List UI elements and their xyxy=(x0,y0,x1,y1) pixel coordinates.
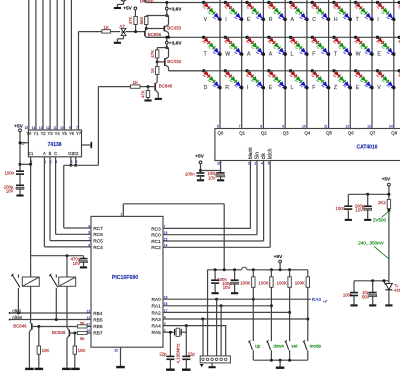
svg-text:1K: 1K xyxy=(133,80,138,85)
svg-text:2K2: 2K2 xyxy=(378,200,386,205)
svg-text:BC846: BC846 xyxy=(13,323,27,328)
+3,6V supply driver group 1 xyxy=(166,3,168,16)
switch contact 2 xyxy=(55,275,57,278)
svg-text:10V: 10V xyxy=(208,175,216,180)
svg-text:Q2: Q2 xyxy=(261,131,267,136)
svg-text:4: 4 xyxy=(261,162,263,166)
wire +5V cap rail right xyxy=(348,193,389,195)
svg-text:5: 5 xyxy=(268,162,270,166)
svg-text:clk: clk xyxy=(261,153,267,160)
capacitor 100u 10V buttons xyxy=(234,270,236,280)
svg-text:100K: 100K xyxy=(258,280,268,285)
IC U3 CAT4016 LED driver xyxy=(215,129,400,161)
wire: column Q8 xyxy=(393,0,395,129)
transistor BC856 group1 xyxy=(144,31,146,36)
ground 10K relay2 xyxy=(71,368,80,370)
svg-text:20: 20 xyxy=(114,349,118,353)
capacitor 100n right top xyxy=(347,194,349,206)
svg-text:latch: latch xyxy=(268,148,274,159)
svg-text:100K: 100K xyxy=(240,280,250,285)
svg-text:6: 6 xyxy=(217,125,219,129)
capacitor 100u 10V right top xyxy=(367,194,369,206)
RGB LED cell row1 col8 letter I xyxy=(376,1,379,4)
RGB LED cell row1 col5 letter C xyxy=(311,1,314,4)
ground 10K relay1 xyxy=(35,368,44,370)
wire relay +5V rail xyxy=(31,255,84,257)
switch down xyxy=(268,342,271,350)
crystal 4,192MHz xyxy=(170,331,174,333)
svg-text:D: D xyxy=(204,85,208,91)
svg-text:10V: 10V xyxy=(6,189,14,194)
svg-text:F: F xyxy=(312,85,315,91)
net label clkM xyxy=(9,319,11,321)
resistor 1K horizontal group2 xyxy=(131,85,141,88)
wire switch2 to clkM xyxy=(55,291,57,320)
ground BC846-1 emitter xyxy=(25,368,34,370)
svg-text:I: I xyxy=(247,85,248,91)
shunt regulator TL431 xyxy=(388,281,390,284)
svg-text:12: 12 xyxy=(46,126,50,130)
svg-text:8: 8 xyxy=(260,125,262,129)
wire RA0 xyxy=(163,298,311,300)
svg-text:BC856: BC856 xyxy=(140,0,154,4)
wire: column Q7 xyxy=(371,0,373,129)
svg-text:E: E xyxy=(269,85,273,91)
svg-text:6: 6 xyxy=(88,243,90,247)
svg-text:56K: 56K xyxy=(139,17,144,25)
RGB LED cell row1 col2 letter E xyxy=(245,1,248,4)
svg-text:Y0: Y0 xyxy=(26,131,32,136)
svg-text:2V500: 2V500 xyxy=(373,218,387,223)
svg-text:Sin: Sin xyxy=(255,152,261,159)
ground 22p left xyxy=(166,369,175,371)
svg-text:13: 13 xyxy=(39,126,43,130)
svg-text:Y2: Y2 xyxy=(40,131,46,136)
wire +5V jog to G1 xyxy=(20,163,31,165)
RGB LED cell row3 col6 letter Z xyxy=(332,69,335,72)
resistor 10K relay2 xyxy=(74,333,76,346)
RGB LED cell row3 col1 letter R xyxy=(224,69,227,72)
svg-text:V: V xyxy=(204,17,208,23)
wire RA4 to crystal/C xyxy=(185,326,187,357)
svg-text:Q1: Q1 xyxy=(239,131,245,136)
wire row3 feed xyxy=(169,70,204,72)
svg-text:RC0: RC0 xyxy=(151,233,161,239)
ground 22p right xyxy=(182,369,191,371)
svg-text:50V: 50V xyxy=(362,294,370,299)
wire ICSP pin5 to RA1 xyxy=(220,306,222,356)
svg-text:Y4: Y4 xyxy=(55,131,61,136)
wire ICSP pin6 to RA4 xyxy=(225,326,227,356)
svg-text:RA5: RA5 xyxy=(151,330,161,336)
svg-text:2: 2 xyxy=(254,162,256,166)
svg-text:CAT4016: CAT4016 xyxy=(356,144,377,150)
svg-text:15: 15 xyxy=(25,126,29,130)
svg-text:RC4: RC4 xyxy=(93,245,103,251)
diode pair A7 group0 (clipped) xyxy=(121,0,126,2)
svg-text:G1: G1 xyxy=(28,151,34,156)
RGB LED cell row1 col7 letter T xyxy=(354,1,357,4)
wires A,B,C,G2-net down to PIC RC pins xyxy=(43,160,45,247)
svg-text:Z: Z xyxy=(334,85,337,91)
svg-text:1K: 1K xyxy=(150,68,155,73)
svg-text:RC1: RC1 xyxy=(151,239,161,245)
svg-text:up: up xyxy=(255,343,261,348)
wire ICSP pin2 to +5V xyxy=(207,270,209,356)
svg-text:R: R xyxy=(225,85,229,91)
svg-text:mode: mode xyxy=(310,343,322,348)
RGB LED cell row2 col5 letter F xyxy=(311,36,314,39)
svg-text:100n: 100n xyxy=(335,206,345,211)
svg-text:A: A xyxy=(43,151,46,156)
svg-text:1K: 1K xyxy=(103,25,108,30)
ground below caps xyxy=(16,194,23,196)
wire: LED row 3 anode bus xyxy=(169,70,400,72)
svg-text:Y1: Y1 xyxy=(33,131,39,136)
wire +5V to CAT4016 VDD xyxy=(200,164,202,173)
wire RA1 xyxy=(163,305,271,307)
svg-text:BCX53: BCX53 xyxy=(167,59,181,64)
svg-text:14: 14 xyxy=(32,126,36,130)
ground 470u xyxy=(80,266,87,268)
transistor BC856 group0 (clipped) xyxy=(144,0,146,2)
switch contact 1 xyxy=(17,275,19,278)
RGB LED cell row1 col6 letter H xyxy=(332,1,335,4)
svg-text:RB6: RB6 xyxy=(93,324,103,330)
svg-text:I: I xyxy=(377,17,378,23)
transistor Q BCX53 group2 xyxy=(164,58,166,66)
RGB LED cell row3 col0 letter D xyxy=(202,69,205,72)
wire RC2 to latch xyxy=(163,246,270,248)
svg-text:1: 1 xyxy=(121,212,123,216)
resistor 47K pulldown group2 xyxy=(147,87,149,91)
svg-text:E: E xyxy=(356,85,360,91)
ground 100n buttons xyxy=(212,292,219,294)
transistor Q BCX53 group1 xyxy=(163,26,165,32)
svg-text:RA0: RA0 xyxy=(312,297,322,303)
svg-text:Q3: Q3 xyxy=(283,131,289,136)
svg-text:Q7: Q7 xyxy=(370,131,376,136)
wire +5V rail down xyxy=(19,132,21,172)
no-connect stub right of 74138 xyxy=(82,144,92,146)
wire base node 1 xyxy=(32,326,78,328)
svg-text:BCX53: BCX53 xyxy=(167,25,181,30)
ground 10u bottom right xyxy=(369,304,376,306)
ground of A7 group0 xyxy=(114,7,121,9)
RGB LED cell row2 col0 letter T xyxy=(202,36,205,39)
connector SV1 ICSP xyxy=(200,356,230,363)
resistor 100K pullup 3 xyxy=(289,270,291,277)
svg-text:RB7: RB7 xyxy=(93,330,103,336)
ground 100n bottom right xyxy=(350,304,357,306)
svg-text:V: V xyxy=(377,85,381,91)
svg-text:9: 9 xyxy=(69,126,71,130)
wire Y7 to 1K resistor xyxy=(78,32,80,130)
resistor 100K pullup 2 xyxy=(270,270,272,277)
svg-text:13: 13 xyxy=(367,125,371,129)
svg-text:set: set xyxy=(291,343,298,348)
RGB LED cell row2 col3 letter A xyxy=(267,36,270,39)
RGB LED cell row2 col6 letter T xyxy=(332,36,335,39)
wire: column Q5 xyxy=(328,0,330,129)
wire ICSP pin1 to RA3 xyxy=(202,319,204,356)
RGB LED cell row3 col8 letter V xyxy=(376,69,379,72)
wire: column Q2 xyxy=(262,0,264,129)
wire: column Q4 xyxy=(306,0,308,129)
switch set xyxy=(286,342,289,350)
svg-text:3: 3 xyxy=(248,162,250,166)
net label clkS xyxy=(9,312,11,314)
resistor 100K pullup 4 xyxy=(307,270,309,277)
wire base node 2 xyxy=(69,332,77,334)
resistor 5K to RB7 xyxy=(77,331,87,334)
resistor 100K pullup 1 xyxy=(252,270,254,277)
svg-text:+5V: +5V xyxy=(274,254,283,260)
svg-text:RA3: RA3 xyxy=(151,317,161,323)
RGB LED cell row2 col9 (clipped) xyxy=(398,36,400,39)
RGB LED cell row2 col8 letter E xyxy=(376,36,379,39)
svg-text:R: R xyxy=(269,17,273,23)
wire: LED row 1 anode bus xyxy=(146,2,400,4)
ground of BC846 emitter xyxy=(155,98,162,100)
transistor BC846 group2 xyxy=(154,83,156,91)
wire: column Q0 xyxy=(219,0,221,129)
wire G2-net up to 1K of BC846 row driver xyxy=(97,87,99,166)
svg-text:4,192MHz: 4,192MHz xyxy=(176,343,181,363)
ground of A7 xyxy=(114,42,121,44)
svg-text:7: 7 xyxy=(239,125,241,129)
+3,6V supply driver group 2 xyxy=(166,37,168,47)
wire button ground rail xyxy=(253,359,307,361)
wire: LED row 2 anode bus xyxy=(146,36,400,38)
wires Y0-Y6 of 74138 going up xyxy=(28,0,30,130)
wire RC0 to Sin xyxy=(163,234,257,236)
wire RA2 xyxy=(163,311,290,313)
pin VDD of CAT4016 (pin 16) xyxy=(220,161,222,171)
+5V rail above buttons xyxy=(209,269,242,271)
svg-text:10: 10 xyxy=(302,125,306,129)
wire: column Q1 xyxy=(241,0,243,129)
resistor 1K horizontal (Y7 net) xyxy=(102,30,111,33)
svg-text:8: 8 xyxy=(88,231,90,235)
svg-text:G2: G2 xyxy=(73,151,79,156)
wire relay2 coil to BC846 collector xyxy=(66,286,68,328)
ground BC846-2 emitter xyxy=(62,368,71,370)
resistor 1K group2 vertical xyxy=(156,62,158,67)
svg-text:RC2: RC2 xyxy=(151,245,161,251)
wire RA3 xyxy=(163,318,308,320)
svg-text:BC846: BC846 xyxy=(159,84,173,89)
svg-text:100n: 100n xyxy=(4,171,14,176)
wire: column Q6 xyxy=(349,0,351,129)
svg-text:14: 14 xyxy=(389,125,393,129)
svg-text:RC5: RC5 xyxy=(93,239,103,245)
ground below 100n xyxy=(197,179,204,181)
svg-text:RC7: RC7 xyxy=(93,226,103,232)
svg-text:Q5: Q5 xyxy=(326,131,332,136)
wire +3,6V rail group2 xyxy=(157,47,168,49)
RGB LED cell row1 col9 (clipped) xyxy=(398,1,400,4)
ground 100u right top xyxy=(364,219,371,221)
svg-text:PIC16F690: PIC16F690 xyxy=(112,275,138,281)
svg-text:10V: 10V xyxy=(223,285,231,290)
capacitor 22p left xyxy=(169,332,171,356)
wire VDD net to +5V rail of buttons xyxy=(123,203,224,205)
wire relay1 coil to BC846 collector xyxy=(30,286,32,321)
svg-text:W: W xyxy=(225,52,230,58)
ground below PIC xyxy=(116,366,125,368)
wire RA5 xyxy=(163,331,170,333)
ground ICSP xyxy=(209,366,216,368)
RGB LED cell row3 col3 letter E xyxy=(267,69,270,72)
wire G2A G2B tie xyxy=(70,157,72,166)
svg-text:Q8: Q8 xyxy=(391,131,397,136)
wire clkS to RB4 xyxy=(10,312,91,314)
RGB LED cell row2 col1 letter W xyxy=(224,36,227,39)
RGB LED cell row3 col7 letter E xyxy=(354,69,357,72)
svg-text:+3,6V: +3,6V xyxy=(169,40,182,46)
RGB LED cell row3 col2 letter I xyxy=(245,69,248,72)
resistor 56K xyxy=(145,16,147,17)
svg-text:7: 7 xyxy=(88,237,90,241)
wire ICSP pin3 to ground xyxy=(211,363,213,366)
RGB LED cell row2 col2 letter A xyxy=(245,36,248,39)
RGB LED cell row3 col9 (clipped) xyxy=(398,69,400,72)
svg-text:5K: 5K xyxy=(80,336,85,341)
wire clkM to RB5 xyxy=(10,319,91,321)
RGB LED cell row1 col3 letter R xyxy=(267,1,270,4)
wire +5V to 2K2 xyxy=(388,186,390,199)
svg-text:F: F xyxy=(312,52,315,58)
capacitor 10u 50V bottom right xyxy=(372,281,374,293)
switch mode xyxy=(304,342,307,350)
svg-text:100K: 100K xyxy=(277,280,287,285)
svg-text:10V: 10V xyxy=(355,208,363,213)
capacitor 100n bottom right xyxy=(353,281,355,293)
svg-text:11: 11 xyxy=(324,125,328,129)
svg-text:9: 9 xyxy=(88,224,90,228)
svg-text:47K: 47K xyxy=(141,90,146,98)
RGB LED cell row1 col0 letter V xyxy=(202,1,205,4)
svg-text:RA0: RA0 xyxy=(151,297,161,303)
svg-text:I: I xyxy=(225,17,226,23)
svg-text:E: E xyxy=(247,17,251,23)
wire ICSP pin4 to RA0 xyxy=(216,299,218,356)
svg-text:down: down xyxy=(273,343,284,348)
wire +3,6V rail group1 xyxy=(146,15,168,17)
svg-text:E: E xyxy=(377,52,381,58)
svg-text:L: L xyxy=(291,52,294,58)
RGB LED cell row3 col4 letter L xyxy=(289,69,292,72)
svg-text:Q6: Q6 xyxy=(348,131,354,136)
svg-text:74138: 74138 xyxy=(48,142,62,148)
svg-text:blank: blank xyxy=(248,147,254,159)
svg-text:431: 431 xyxy=(394,287,400,292)
svg-text:9: 9 xyxy=(282,125,284,129)
svg-text:RB5: RB5 xyxy=(93,317,103,323)
svg-text:RA4: RA4 xyxy=(151,324,161,330)
svg-text:+t°: +t° xyxy=(323,300,328,304)
svg-text:7: 7 xyxy=(76,126,78,130)
wire row2 feed xyxy=(167,36,170,39)
wire switch1 to clkS xyxy=(17,291,19,314)
wire RA4 xyxy=(163,325,226,327)
svg-text:C: C xyxy=(312,17,316,23)
svg-text:A: A xyxy=(247,52,251,58)
svg-text:10K: 10K xyxy=(42,348,50,353)
svg-text:10: 10 xyxy=(60,126,64,130)
svg-text:RB4: RB4 xyxy=(93,311,103,317)
IC U2 74138 decoder xyxy=(28,130,81,157)
svg-text:Y6: Y6 xyxy=(69,131,75,136)
svg-text:RC6: RC6 xyxy=(93,232,103,238)
svg-text:Y5: Y5 xyxy=(62,131,68,136)
svg-text:47K: 47K xyxy=(128,17,133,25)
svg-text:+5V: +5V xyxy=(14,123,23,129)
svg-text:16: 16 xyxy=(217,161,221,165)
svg-text:22p: 22p xyxy=(159,352,167,357)
svg-text:Q4: Q4 xyxy=(304,131,310,136)
svg-text:Y3: Y3 xyxy=(48,131,54,136)
svg-text:+5V: +5V xyxy=(195,154,204,160)
svg-text:10K: 10K xyxy=(78,348,86,353)
IC U1 PIC16F690 xyxy=(91,216,163,347)
ground 100u buttons xyxy=(231,292,238,294)
RGB LED cell row2 col7 letter W xyxy=(354,36,357,39)
svg-text:L: L xyxy=(291,85,294,91)
ground buttons xyxy=(276,367,285,369)
svg-text:47K: 47K xyxy=(150,50,155,58)
wire A7 to BC856 base xyxy=(126,31,145,33)
ground of 47K pulldown xyxy=(144,99,151,101)
ground below 100u xyxy=(217,179,224,181)
svg-text:240...350mV: 240...350mV xyxy=(358,240,384,245)
RGB LED cell row3 col5 letter F xyxy=(311,69,314,72)
relay coil 2 xyxy=(66,256,68,277)
svg-text:A: A xyxy=(269,52,273,58)
pin1 marker triangle xyxy=(200,364,204,367)
svg-text:BC846: BC846 xyxy=(52,330,66,335)
wire G2-net to RC7 xyxy=(63,165,65,228)
svg-text:Q0: Q0 xyxy=(218,131,224,136)
svg-text:100K: 100K xyxy=(295,280,305,285)
svg-text:12: 12 xyxy=(346,125,350,129)
wire top rail TL431 xyxy=(354,280,389,282)
svg-text:11: 11 xyxy=(53,126,57,130)
svg-text:C: C xyxy=(54,151,57,156)
wire: column Q3 xyxy=(284,0,286,129)
resistor 47K group2 xyxy=(156,48,158,50)
svg-text:100n: 100n xyxy=(185,172,195,177)
relay coil 1 xyxy=(30,256,32,277)
ground TL431 xyxy=(385,304,392,306)
wire G1 down to relay rail xyxy=(30,157,32,256)
svg-text:+3,6V: +3,6V xyxy=(169,6,182,12)
svg-text:Y7: Y7 xyxy=(76,131,82,136)
svg-text:RA2: RA2 xyxy=(151,310,161,316)
RGB LED cell row2 col4 letter L xyxy=(289,36,292,39)
svg-text:RA1: RA1 xyxy=(151,304,161,310)
ground 100n right top xyxy=(345,219,352,221)
switch up xyxy=(249,342,252,350)
RGB LED cell row1 col4 letter A xyxy=(289,1,292,4)
resistor 47K pull-up xyxy=(134,10,136,17)
wire RC1 to clk xyxy=(163,240,264,242)
resistor 10K relay1 xyxy=(38,327,40,347)
svg-text:RC3: RC3 xyxy=(151,226,161,232)
svg-text:H: H xyxy=(334,17,338,23)
RGB LED cell row1 col1 letter I xyxy=(224,1,227,4)
